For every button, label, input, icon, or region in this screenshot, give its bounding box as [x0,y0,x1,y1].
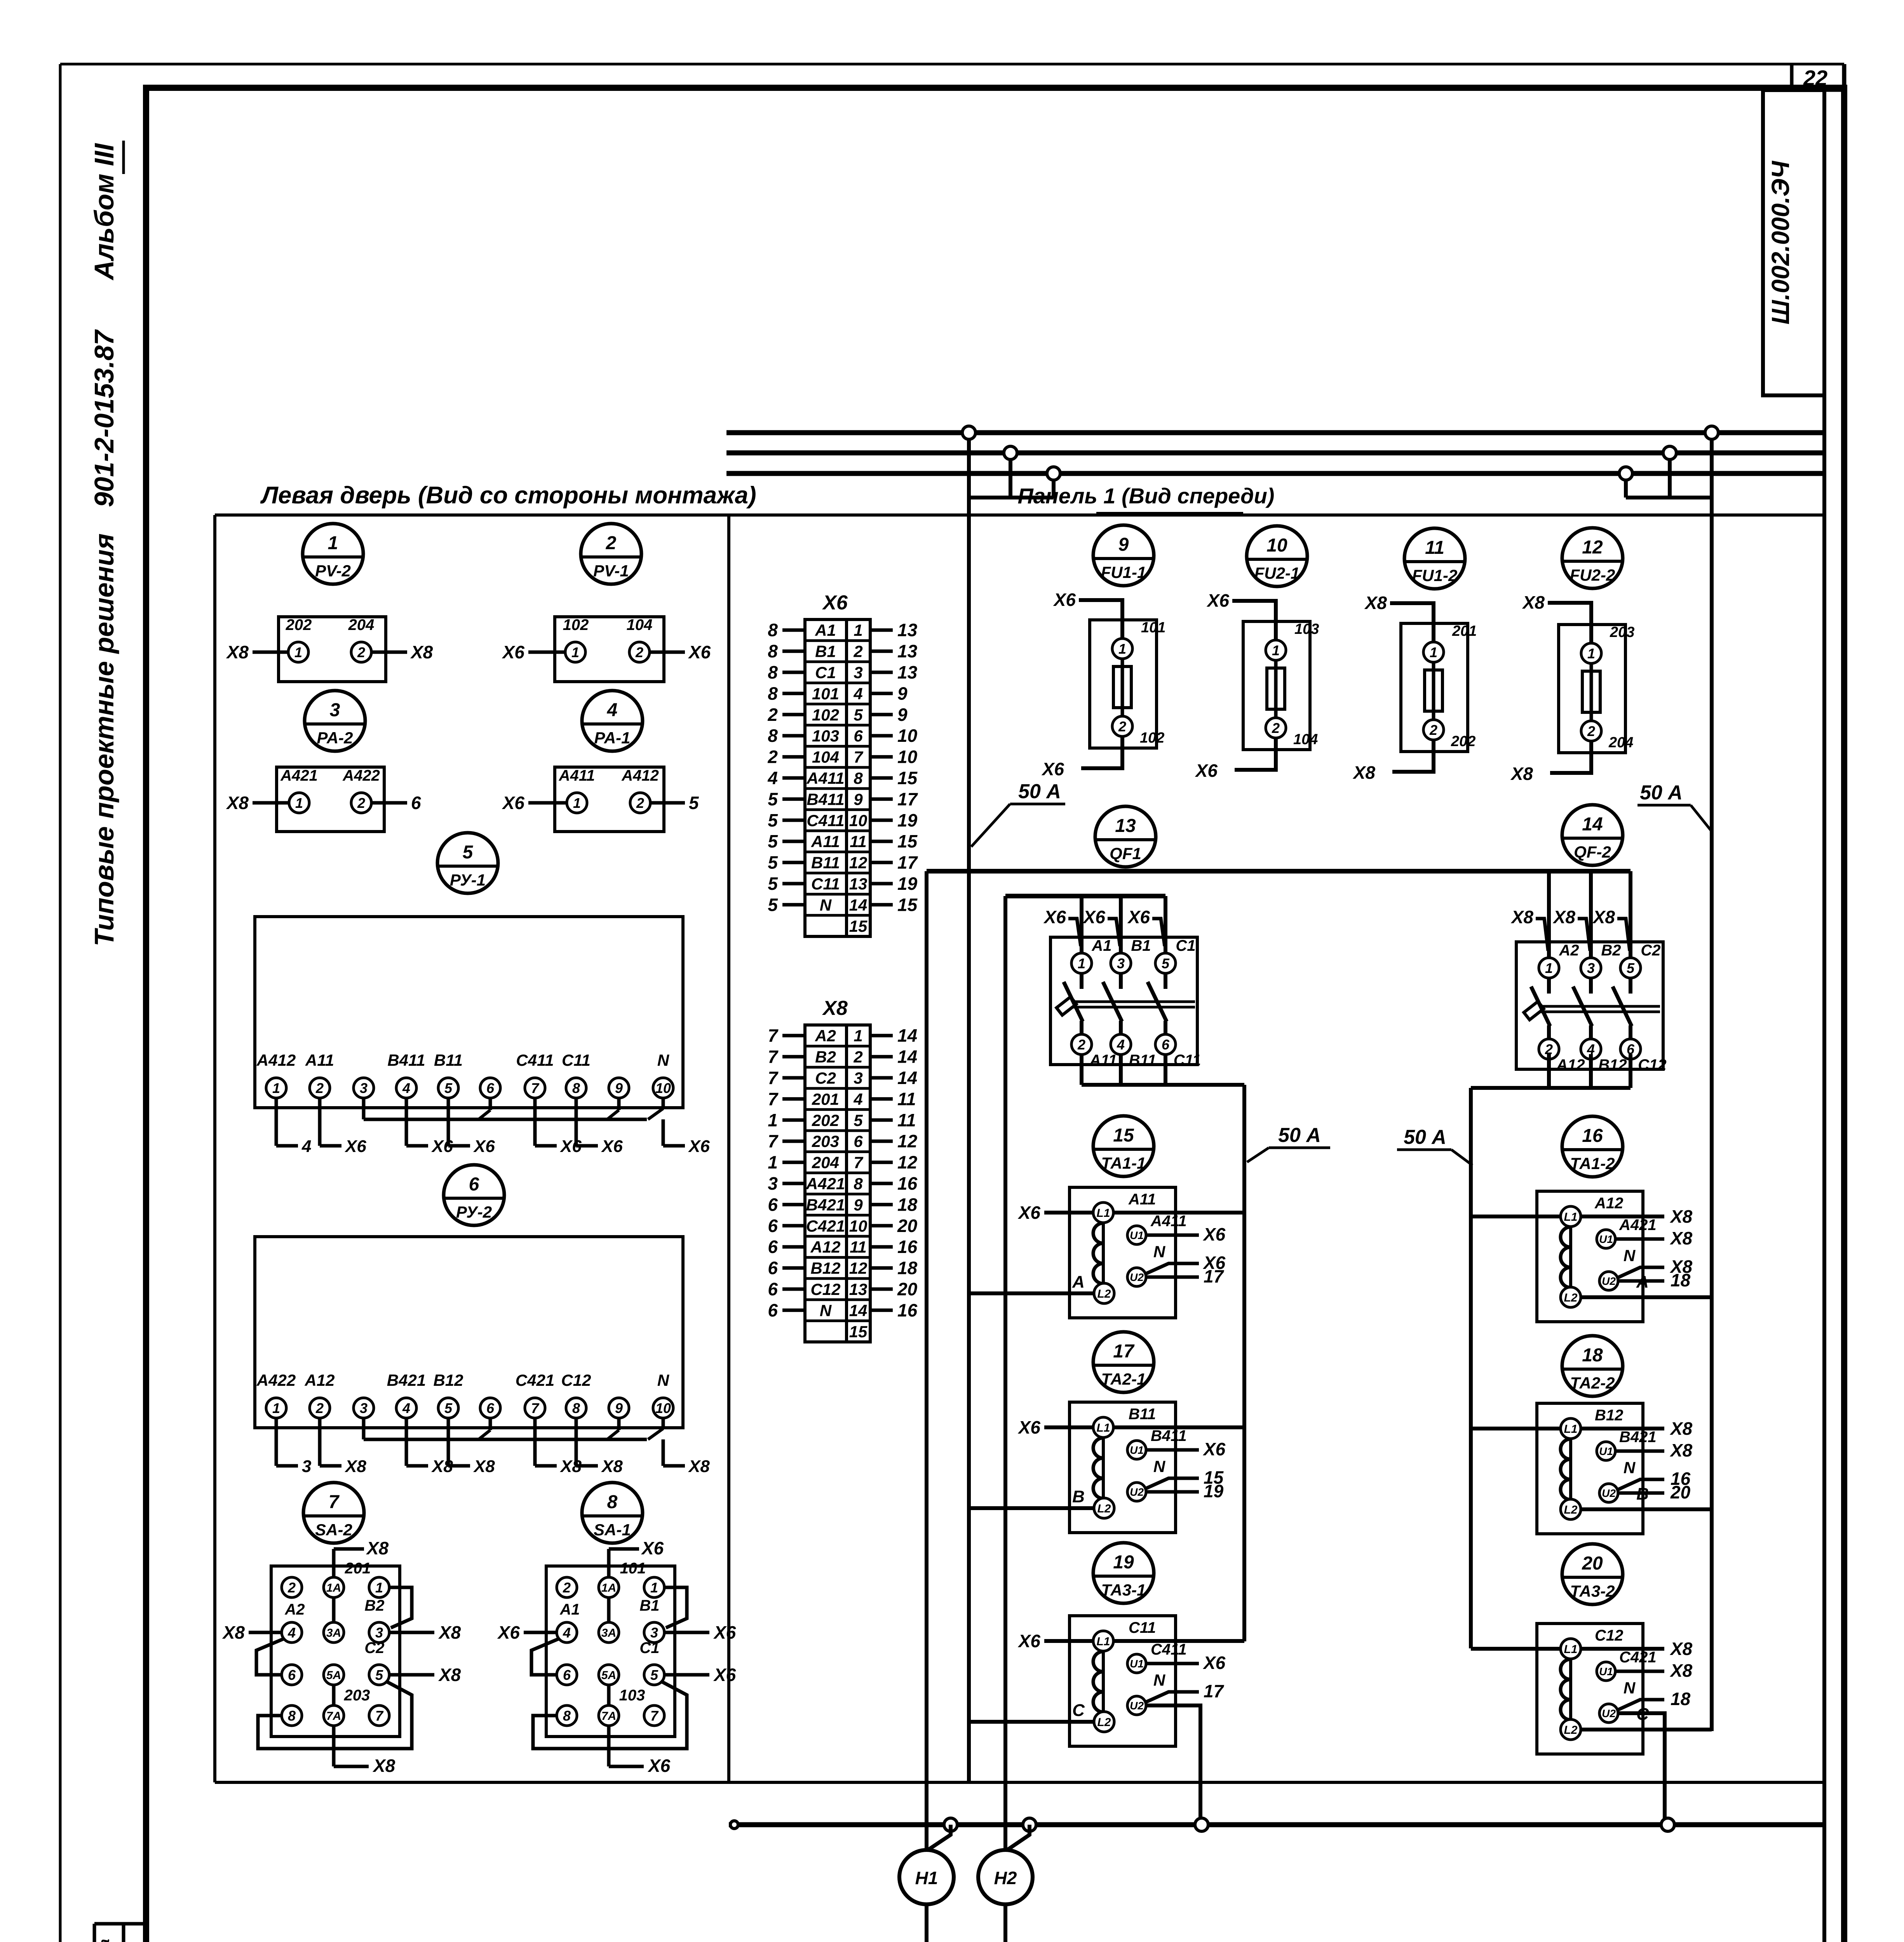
wire feeder 1 top run [1005,894,1165,898]
wire Х6:13 to 19 [870,882,893,886]
svg-text:В2: В2 [364,1597,384,1614]
svg-text:В11: В11 [434,1051,463,1069]
wire Х8:7 to 12 [870,1161,893,1164]
svg-text:N: N [657,1051,670,1069]
wire 7 to Х8:2 [782,1055,805,1058]
wire 8 to Х6:6 [782,734,805,738]
wire ТА3-2:L1 to X8 [1581,1647,1664,1651]
svg-text:А1: А1 [559,1601,580,1618]
svg-text:9: 9 [615,1400,623,1416]
wire Х6 to SA-1:4 [524,1631,556,1634]
wire 8 to Х6:1 [782,628,805,632]
svg-text:Панель 1 (Вид спереди): Панель 1 (Вид спереди) [1018,484,1275,508]
node N bus end [730,1821,738,1829]
svg-text:N: N [1153,1671,1166,1689]
svg-text:7: 7 [650,1708,659,1724]
wire drop to QF1 pole 3 [1164,896,1167,953]
svg-text:2: 2 [606,533,617,553]
wire 3 to Х8:8 [782,1182,805,1185]
svg-text:16: 16 [1582,1126,1603,1146]
svg-text:6: 6 [768,1300,778,1320]
svg-text:5: 5 [444,1080,453,1096]
svg-text:Х8: Х8 [222,1622,245,1643]
wire Х6:11 to 15 [870,840,893,843]
svg-text:L1: L1 [1564,1211,1577,1223]
wire SA-2 internal links [332,1598,336,1622]
svg-text:10: 10 [1266,535,1287,556]
svg-text:ТА2-2: ТА2-2 [1570,1374,1615,1392]
svg-text:5: 5 [854,706,863,724]
svg-text:Х8: Х8 [1669,1639,1693,1659]
wire ТА1-1:U1 to X6 [1146,1234,1199,1237]
current transformer ТА1-2 [1562,1116,1623,1177]
wire 5 to Х6:14 [782,903,805,907]
svg-text:7: 7 [768,1047,779,1067]
svg-text:4: 4 [853,684,862,703]
svg-text:Х6: Х6 [647,1756,671,1776]
svg-text:А11: А11 [305,1051,334,1069]
wire drop to QF-2 pole 1 [1547,871,1551,957]
svg-text:N: N [820,1301,832,1319]
coil ТА3-2 [1569,1659,1572,1719]
svg-text:15: 15 [849,917,868,935]
svg-text:13: 13 [897,620,918,640]
svg-text:Х6: Х6 [344,1137,366,1156]
svg-text:18: 18 [897,1258,918,1278]
svg-text:В11: В11 [1129,1052,1156,1069]
wire SA-2:5 to Х8 [389,1673,434,1677]
svg-text:17: 17 [1204,1266,1225,1286]
svg-text:8: 8 [768,726,778,746]
svg-text:Х8: Х8 [410,642,433,662]
svg-text:U1: U1 [1130,1229,1144,1241]
svg-text:Х8: Х8 [1669,1660,1693,1681]
wire bundle to ТА3-2:L1 [1471,1647,1560,1651]
svg-text:U2: U2 [1602,1487,1616,1499]
wire bus line 3 [726,471,1824,476]
current transformer ТА2-2 [1562,1336,1623,1396]
svg-text:10: 10 [849,1217,868,1235]
breaker QF-2 pole 3 blade [1629,978,1632,994]
svg-text:FU2-2: FU2-2 [1570,566,1615,584]
wire SA-2 4-6 link [256,1639,284,1675]
svg-text:16: 16 [897,1237,918,1257]
svg-text:N: N [1153,1457,1166,1476]
fuse body FU2-2 [1582,671,1600,712]
svg-text:50 А: 50 А [1404,1126,1446,1148]
svg-text:201: 201 [345,1560,371,1577]
svg-text:13: 13 [1115,816,1136,836]
svg-text:102: 102 [1140,730,1164,746]
svg-text:6: 6 [486,1400,495,1416]
svg-text:4: 4 [563,1625,571,1641]
svg-text:Х6: Х6 [688,642,711,662]
wire SA-1 4-6 link [531,1639,559,1675]
svg-text:22: 22 [1803,66,1827,90]
svg-text:L2: L2 [1564,1503,1577,1516]
svg-text:15: 15 [897,831,918,851]
wire feeder 2 top run [927,869,1631,874]
svg-text:11: 11 [897,1089,916,1109]
fuse FU2-1 [1247,526,1307,586]
svg-text:SA-1: SA-1 [594,1521,631,1539]
wire Х6:4 to 9 [870,692,893,695]
switch SA-1 [582,1483,643,1543]
wire SA-1:7A to Х6 [607,1726,611,1766]
svg-text:А421: А421 [280,767,318,784]
svg-text:С12: С12 [1638,1056,1666,1074]
wire 6 to Х8:14 [782,1309,805,1312]
svg-text:С11: С11 [562,1051,591,1069]
svg-text:1: 1 [1272,642,1280,658]
svg-text:9: 9 [615,1080,623,1096]
svg-text:Х8: Х8 [344,1457,366,1476]
svg-text:В2: В2 [1601,942,1621,959]
margin boxes [93,1924,96,1942]
wire Х8:9 to 18 [870,1203,893,1206]
svg-text:Н1: Н1 [915,1868,938,1888]
svg-text:А412: А412 [256,1051,296,1069]
svg-text:В12: В12 [810,1259,840,1277]
svg-text:3: 3 [375,1625,383,1641]
coil ТА1-1 [1102,1223,1105,1283]
wire SA-1 5-8 link [533,1682,687,1749]
wire 6 to Х8:10 [782,1224,805,1227]
svg-text:Х6: Х6 [1202,1653,1226,1673]
wire РУ-1 terminal to Х6 [318,1098,322,1146]
svg-text:5: 5 [768,831,778,851]
wire 5 to Х6:11 [782,840,805,843]
svg-text:104: 104 [1293,731,1318,748]
fuse FU2-2 [1562,528,1623,588]
wire 8 to Х6:2 [782,649,805,653]
svg-text:Х8: Х8 [1364,593,1387,613]
node bus junctions right [1705,426,1718,439]
svg-text:U2: U2 [1130,1486,1144,1498]
svg-text:U2: U2 [1602,1275,1616,1287]
breaker QF1 pole 3 blade [1164,974,1167,989]
svg-text:5: 5 [1627,960,1635,976]
wire PA-2:2 to item 6 [371,801,407,805]
svg-text:В1: В1 [639,1597,659,1614]
current transformer ТА3-1 [1093,1543,1154,1603]
svg-text:12: 12 [897,1131,918,1151]
wire bus line 1 [726,430,1824,435]
wire ТА1-2:U1 to X8 [1615,1237,1664,1241]
svg-text:Х6: Х6 [1206,590,1230,611]
svg-text:6: 6 [411,793,421,813]
wire X6 to PV-1:1 [528,651,565,654]
svg-text:С11: С11 [1129,1619,1156,1636]
svg-text:7: 7 [768,1025,779,1046]
svg-text:А422: А422 [256,1371,296,1389]
svg-text:17: 17 [1113,1341,1135,1362]
svg-text:L2: L2 [1097,1716,1111,1729]
svg-text:ТА1-2: ТА1-2 [1570,1154,1615,1173]
svg-text:15: 15 [849,1323,868,1341]
wire X8 to PV-2:1 [253,651,288,654]
svg-text:8: 8 [768,662,778,682]
svg-text:2: 2 [1272,720,1280,736]
wire Х6:10 to 19 [870,818,893,822]
wire X6 to PA-1:1 [528,801,567,805]
svg-text:А: А [1072,1272,1085,1291]
svg-text:U2: U2 [1602,1707,1616,1719]
svg-text:2: 2 [767,705,778,725]
wire ТА2-2:L1 to X8 [1581,1427,1664,1430]
wire ТА3-2:L2 to trunk [1581,1728,1712,1731]
svg-text:2: 2 [563,1580,571,1596]
svg-text:U2: U2 [1130,1271,1144,1283]
svg-text:5: 5 [768,894,778,915]
wire panel right trunk [1710,433,1714,1731]
svg-text:С11: С11 [811,875,840,893]
wire N to lamp H2 [1008,1825,1030,1850]
svg-text:20: 20 [897,1216,918,1236]
svg-text:Х8: Х8 [1510,907,1534,927]
wire 6 to Х8:12 [782,1266,805,1270]
svg-text:А2: А2 [284,1601,305,1618]
svg-text:РУ-1: РУ-1 [450,871,486,889]
wire ТА2-2:U1 to X8 [1615,1450,1664,1453]
svg-text:Х6: Х6 [1043,907,1066,927]
wire X6 to ТА2-1:L1 [1044,1425,1093,1429]
wire Х8:13 to 20 [870,1288,893,1291]
svg-text:РА-2: РА-2 [317,729,353,747]
svg-text:FU1-1: FU1-1 [1101,563,1146,581]
svg-text:А: А [1636,1272,1649,1291]
svg-text:2: 2 [1077,1037,1085,1053]
svg-text:А2: А2 [1559,942,1579,959]
wire ТА1-2:U2 diagonal [1617,1267,1664,1278]
svg-text:Х6: Х6 [1053,590,1076,610]
svg-text:15: 15 [897,768,918,788]
svg-text:11: 11 [897,1110,916,1130]
wire feeder Ввод 1 [1003,1904,1007,1942]
svg-text:2: 2 [357,795,365,811]
svg-text:20: 20 [897,1279,918,1299]
node N junctions [944,1818,957,1831]
svg-text:104: 104 [812,748,839,766]
svg-text:8: 8 [607,1492,618,1512]
svg-text:1: 1 [573,795,581,811]
svg-text:3: 3 [360,1400,368,1416]
svg-text:7: 7 [768,1089,779,1109]
sheet number box 22 [1790,64,1794,90]
svg-text:Х6: Х6 [1017,1631,1041,1651]
svg-text:201: 201 [1452,623,1477,639]
svg-text:14: 14 [897,1047,917,1067]
wire PV-2:2 to X8 [371,651,407,654]
svg-text:В411: В411 [1151,1427,1187,1444]
wire ТА2-2:U2 diagonal [1617,1479,1664,1490]
wire SA-2:3 to Х8 [389,1631,434,1634]
wire ТА3-1:L1 to bundle [1114,1639,1244,1643]
svg-text:С1: С1 [639,1639,659,1657]
svg-text:L1: L1 [1564,1643,1577,1656]
svg-text:Х8: Х8 [473,1457,495,1476]
wire Х8:8 to 16 [870,1182,893,1185]
meter РУ-1 [437,833,498,893]
svg-text:5: 5 [768,810,778,830]
svg-text:Х6: Х6 [1041,759,1064,779]
svg-text:С: С [1072,1701,1085,1720]
svg-text:1: 1 [1587,646,1595,661]
svg-text:3: 3 [1117,955,1125,971]
wire Х6:14 to 15 [870,903,893,907]
wire SA-1 1-3 link [664,1587,687,1628]
wire PA-1:2 to item 5 [650,801,685,805]
svg-text:Х6: Х6 [822,592,848,614]
svg-text:9: 9 [1118,534,1129,555]
svg-text:9: 9 [897,705,908,725]
svg-text:203: 203 [812,1132,839,1150]
svg-text:6: 6 [288,1667,296,1683]
svg-text:3: 3 [360,1080,368,1096]
wire 2 to Х6:5 [782,713,805,716]
svg-text:9: 9 [854,790,863,808]
svg-text:А12: А12 [1594,1195,1623,1212]
svg-text:11: 11 [850,832,867,851]
node bus junctions left [962,426,976,439]
svg-text:Х8: Х8 [1352,762,1376,783]
wire ТА2-1:L2 to trunk [970,1506,1094,1510]
svg-text:U1: U1 [1599,1665,1613,1677]
svg-text:ТА3-2: ТА3-2 [1570,1582,1615,1600]
svg-text:12: 12 [849,1259,868,1277]
wire N to lamp H1 [928,1825,951,1850]
svg-text:Х6: Х6 [601,1137,623,1156]
wire Х6:6 to 10 [870,734,893,738]
svg-text:N: N [1624,1679,1636,1697]
svg-text:Х8: Х8 [1510,764,1533,784]
svg-text:5: 5 [768,874,778,894]
wire PV-1:2 to X6 [650,651,685,654]
circuit breaker QF1 [1095,806,1156,867]
left door outline [215,513,1824,517]
svg-text:1: 1 [768,1110,778,1130]
wire Х8:2 to 14 [870,1055,893,1058]
svg-text:50 А: 50 А [1278,1124,1321,1147]
svg-text:19: 19 [897,874,918,894]
document stamp Ш.002.000.ЭЧ [1763,90,1824,395]
wire Х6:5 to 9 [870,713,893,716]
svg-text:15: 15 [1113,1125,1134,1146]
svg-text:Х6: Х6 [1082,907,1106,927]
svg-text:11: 11 [850,1238,867,1256]
wire SA-2 1-3 link [389,1587,412,1628]
svg-text:8: 8 [768,620,778,640]
svg-text:5А: 5А [601,1669,616,1682]
svg-text:7: 7 [531,1080,540,1096]
svg-text:5: 5 [650,1667,658,1683]
svg-text:А2: А2 [815,1027,836,1045]
svg-text:С411: С411 [807,811,844,830]
svg-text:3: 3 [854,663,862,682]
wire Х8:3 to 14 [870,1076,893,1080]
svg-text:50 А: 50 А [1640,781,1683,804]
svg-text:Х8: Х8 [1669,1228,1693,1248]
svg-text:202: 202 [286,616,312,633]
wire harness below РУ-1 [364,1118,647,1121]
svg-text:19: 19 [1113,1552,1134,1573]
wire Х8:14 to 16 [870,1309,893,1312]
svg-text:В411: В411 [387,1051,425,1069]
svg-text:ТА3-1: ТА3-1 [1101,1581,1146,1599]
wire feeder Ввод 2 [925,1904,928,1942]
svg-text:1: 1 [272,1080,280,1096]
svg-text:16: 16 [897,1173,918,1194]
wire Х6:8 to 15 [870,776,893,780]
svg-text:103: 103 [619,1687,645,1704]
wire 1 to Х8:7 [782,1161,805,1164]
svg-text:Х6: Х6 [1202,1439,1226,1459]
wire ТА2-1:U2 horizontal [1146,1490,1199,1494]
lamp H1 [899,1850,954,1904]
svg-text:L2: L2 [1564,1291,1577,1304]
svg-text:18: 18 [1671,1689,1691,1709]
svg-text:U1: U1 [1130,1444,1144,1456]
svg-text:Х8: Х8 [226,642,249,662]
svg-text:А412: А412 [621,767,659,784]
svg-text:С421: С421 [516,1371,554,1389]
wire 8 to Х6:3 [782,671,805,674]
wire ТА3-2:U1 to X8 [1615,1670,1664,1673]
svg-text:10: 10 [897,726,918,746]
svg-text:8: 8 [768,641,778,661]
svg-text:U1: U1 [1130,1658,1144,1670]
svg-text:С11: С11 [1174,1052,1201,1069]
svg-text:Типовые проектные решения: Типовые проектные решения [89,533,119,946]
wire Х6:1 to 13 [870,628,893,632]
svg-text:4: 4 [607,700,618,720]
wire РУ-2 terminal to 3 [275,1418,278,1466]
svg-text:1: 1 [571,644,579,660]
svg-text:8: 8 [563,1708,571,1724]
svg-text:Х6: Х6 [641,1538,664,1558]
svg-text:103: 103 [1294,621,1319,637]
svg-text:7: 7 [854,748,863,766]
ammeter PA-2 [305,691,365,751]
svg-text:14: 14 [897,1025,917,1046]
svg-text:С1: С1 [1176,937,1195,954]
wire РУ-1 terminal to Х6 [447,1098,450,1146]
svg-text:Х6: Х6 [502,642,525,662]
svg-text:12: 12 [1582,537,1603,558]
svg-text:Х6: Х6 [497,1622,520,1643]
wire FU1-1:2 to Х6 [1081,737,1122,768]
svg-text:202: 202 [1451,733,1475,750]
svg-text:FU1-2: FU1-2 [1412,566,1458,585]
svg-text:12: 12 [849,854,868,872]
coil ТА2-1 [1102,1438,1105,1498]
svg-text:4: 4 [767,768,778,788]
coil ТА1-2 [1569,1227,1572,1287]
svg-text:4: 4 [402,1400,410,1416]
wire Х6:9 to 17 [870,797,893,801]
svg-text:А411: А411 [1150,1213,1187,1230]
wire 4 to Х6:8 [782,776,805,780]
ammeter PA-1 [582,691,643,751]
wire ТА2-1:U2 diagonal [1145,1478,1199,1489]
wire РУ-2 terminal to Х8 [662,1439,665,1466]
wire РУ-1 terminal to Х6 [662,1119,665,1146]
svg-text:Х8: Х8 [1592,907,1615,927]
wire ТА2-1:L1 to bundle [1114,1425,1244,1429]
wire 5 to Х6:9 [782,797,805,801]
wire ТА1-2:U2 horizontal [1618,1279,1664,1283]
wire РУ-2 terminal to Х8 [575,1418,578,1466]
